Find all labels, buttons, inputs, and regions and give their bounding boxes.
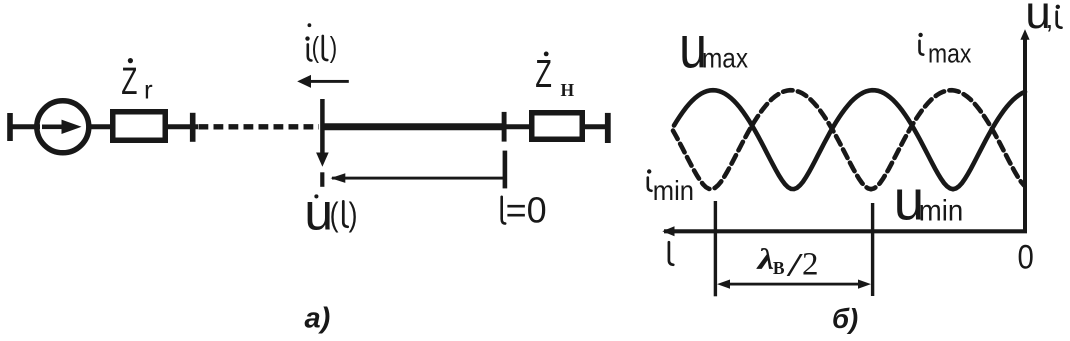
svg-text:б): б) — [832, 303, 858, 334]
svg-text:max: max — [928, 39, 972, 69]
svg-text:(: ( — [312, 33, 320, 64]
svg-text:0: 0 — [1018, 237, 1034, 276]
svg-text:а): а) — [305, 303, 331, 335]
svg-text:min: min — [919, 194, 963, 227]
svg-text:): ) — [330, 33, 337, 64]
svg-text:=0: =0 — [506, 190, 547, 231]
svg-text:,: , — [1046, 3, 1054, 34]
svg-text:Z: Z — [535, 53, 552, 96]
svg-text:min: min — [653, 175, 694, 206]
svg-text:Z: Z — [121, 59, 137, 102]
svg-text:): ) — [349, 197, 358, 233]
svg-text:(: ( — [330, 197, 339, 233]
svg-text:В: В — [773, 258, 785, 278]
svg-text:u: u — [304, 183, 333, 241]
svg-text:r: r — [144, 75, 153, 105]
svg-text:Н: Н — [561, 80, 575, 100]
svg-text:λ: λ — [755, 243, 774, 276]
svg-text:max: max — [702, 42, 748, 74]
svg-text:2: 2 — [802, 247, 819, 283]
